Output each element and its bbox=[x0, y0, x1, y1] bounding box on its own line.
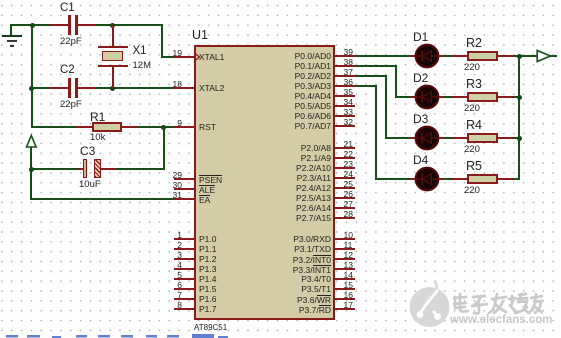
pin 14 (right) bbox=[0, 0, 561, 1]
pin 31 EA (left) bbox=[0, 0, 561, 1]
resistor R1 bbox=[92, 122, 122, 132]
resistor R3 bbox=[467, 92, 498, 102]
junction top rail / crystal top bbox=[110, 23, 115, 28]
wire R5 to bus bbox=[513, 178, 521, 180]
pin 15 (right) bbox=[0, 0, 561, 1]
pin 23 (right) bbox=[0, 0, 561, 1]
pin 8 P1.7 (left) bbox=[0, 0, 561, 1]
power terminal arrow bbox=[24, 134, 40, 150]
pin 34 (right) bbox=[0, 0, 561, 1]
wire power stem to EA pin bbox=[30, 198, 175, 200]
wire R4 lead right bbox=[498, 137, 514, 139]
wire crystal top stem bbox=[112, 25, 114, 47]
label AT89C51 bbox=[194, 323, 227, 332]
LED D2 bbox=[414, 84, 440, 110]
wire D2 lead right bbox=[439, 96, 445, 98]
IC U1 AT89C51 body bbox=[194, 45, 335, 320]
wire bus to arrow bbox=[519, 55, 557, 57]
value 10k bbox=[90, 133, 105, 144]
wire D1 lead right bbox=[439, 55, 445, 57]
value 10uF bbox=[79, 180, 101, 191]
wire into XTAL1 pin bbox=[162, 56, 175, 58]
wire ground to C1 left bbox=[10, 24, 51, 26]
LED D4 bbox=[414, 166, 440, 192]
pin 36 (right) bbox=[0, 0, 561, 1]
pin 17 (right) bbox=[0, 0, 561, 1]
wire C2 right to XTAL2 pin bbox=[95, 87, 176, 89]
label X1 bbox=[133, 45, 147, 58]
junction bus / R4 bbox=[517, 136, 522, 141]
label U1 bbox=[192, 29, 208, 43]
wire left rail to C2 left bbox=[31, 87, 51, 89]
pin 3 P1.2 (left) bbox=[0, 0, 561, 1]
wire D2 to R3 bbox=[444, 96, 453, 98]
LED D3 bbox=[414, 125, 440, 151]
label R1 bbox=[90, 111, 105, 124]
watermark logo circle bbox=[405, 278, 561, 338]
wire to D4 bbox=[375, 178, 413, 180]
pin 11 (right) bbox=[0, 0, 561, 1]
wire R1 lead right bbox=[122, 126, 140, 128]
junction C2 net / crystal bottom bbox=[110, 86, 115, 91]
wire R3 lead right bbox=[498, 96, 514, 98]
wire D3 lead right bbox=[439, 137, 445, 139]
wire C3 lead left bbox=[78, 168, 84, 170]
wire left rail C1-C2-R1 bbox=[31, 24, 33, 128]
value 22pF (C1) bbox=[60, 37, 82, 48]
junction bus / R3 bbox=[517, 95, 522, 100]
label D1 bbox=[413, 31, 428, 44]
pin 33 (right) bbox=[0, 0, 561, 1]
pin 6 P1.5 (left) bbox=[0, 0, 561, 1]
wire pin36 down bbox=[375, 85, 377, 179]
capacitor C2 bbox=[0, 0, 561, 1]
wire C1 lead right bbox=[77, 24, 96, 26]
ground bbox=[0, 0, 561, 1]
pin 13 (right) bbox=[0, 0, 561, 1]
wire pin36 right bbox=[355, 85, 377, 87]
value 12M bbox=[133, 61, 151, 72]
pin 37 (right) bbox=[0, 0, 561, 1]
pin 24 (right) bbox=[0, 0, 561, 1]
resistor R4 bbox=[467, 133, 498, 143]
wire R3 lead left bbox=[452, 96, 468, 98]
wire R2 lead right bbox=[498, 55, 514, 57]
wire C1 lead left bbox=[50, 24, 69, 26]
label C1 bbox=[60, 2, 75, 15]
pin 1 P1.0 (left) bbox=[0, 0, 561, 1]
wire crystal bottom stem bbox=[112, 66, 114, 88]
watermark www.elecfans.com bbox=[450, 314, 552, 327]
label C3 bbox=[80, 145, 95, 158]
wire R4 lead left bbox=[452, 137, 468, 139]
pin 5 P1.4 (left) bbox=[0, 0, 561, 1]
wire D3 to R4 bbox=[444, 137, 453, 139]
bottom caption fragments (cropped blue text) bbox=[0, 334, 240, 338]
label D4 bbox=[413, 154, 428, 167]
value 220 (R3) bbox=[464, 104, 480, 115]
wire D4 to R5 bbox=[444, 178, 453, 180]
wire D4 lead right bbox=[439, 178, 445, 180]
wire R1 right to RST pin bbox=[138, 126, 175, 128]
capacitor C3 bbox=[0, 0, 561, 1]
label D3 bbox=[413, 113, 428, 126]
clock input mark XTAL1 bbox=[195, 53, 201, 61]
pin 22 (right) bbox=[0, 0, 561, 1]
label R2 bbox=[466, 37, 482, 51]
output terminal arrow bbox=[536, 49, 553, 63]
pin 7 P1.6 (left) bbox=[0, 0, 561, 1]
pin 30 ALE (left) bbox=[0, 0, 561, 1]
wire C2 lead left bbox=[50, 87, 69, 89]
wire C3 right plate to branch bbox=[116, 168, 165, 170]
label R4 bbox=[466, 119, 482, 133]
wire output bus bbox=[518, 55, 520, 180]
wire D1 to R2 bbox=[444, 55, 453, 57]
pin 25 (right) bbox=[0, 0, 561, 1]
wire corner down to XTAL1 level bbox=[161, 24, 163, 58]
pin 9 RST (left) bbox=[0, 0, 561, 1]
pin 10 (right) bbox=[0, 0, 561, 1]
junction RST net / C3 branch bbox=[161, 125, 166, 130]
wire C2 lead right bbox=[77, 87, 96, 89]
label D2 bbox=[413, 72, 428, 85]
pin 12 (right) bbox=[0, 0, 561, 1]
resistor R2 bbox=[467, 51, 498, 61]
wire pin39 to D1 bbox=[355, 55, 413, 57]
wire power stem to C3 left wire bbox=[30, 168, 79, 170]
value 220 (R4) bbox=[464, 145, 480, 156]
watermark Chinese text 电子发烧友 bbox=[451, 292, 543, 316]
label R3 bbox=[466, 78, 482, 92]
wire pin37 down bbox=[385, 75, 387, 138]
pin 2 P1.1 (left) bbox=[0, 0, 561, 1]
wire pin38 right bbox=[355, 65, 397, 67]
junction left rail / C2 bbox=[29, 86, 34, 91]
capacitor C1 bbox=[0, 0, 561, 1]
pin 16 (right) bbox=[0, 0, 561, 1]
wire R2 lead left bbox=[452, 55, 468, 57]
wire D1 lead left bbox=[410, 55, 416, 57]
resistor R5 bbox=[467, 174, 498, 184]
pin 35 (right) bbox=[0, 0, 561, 1]
value 22pF (C2) bbox=[60, 100, 82, 111]
pin 18 XTAL2 (left) bbox=[0, 0, 561, 1]
pin 19 XTAL1 (left) bbox=[0, 0, 561, 1]
wire to D2 bbox=[395, 96, 413, 98]
pin 28 (right) bbox=[0, 0, 561, 1]
junction bus / R2 / arrow bbox=[517, 54, 522, 59]
wire R5 lead left bbox=[452, 178, 468, 180]
wire to D3 bbox=[385, 137, 413, 139]
value 220 (R5) bbox=[464, 186, 480, 197]
pin 26 (right) bbox=[0, 0, 561, 1]
pin 38 (right) bbox=[0, 0, 561, 1]
wire pin37 right bbox=[355, 75, 387, 77]
value 220 (R2) bbox=[464, 63, 480, 74]
wire RST branch down to C3 bbox=[163, 127, 165, 169]
wire D4 lead left bbox=[410, 178, 416, 180]
pin 27 (right) bbox=[0, 0, 561, 1]
wire R3 to bus bbox=[513, 96, 521, 98]
label R5 bbox=[466, 160, 482, 174]
junction power stem / C3 left bbox=[29, 167, 34, 172]
pin 32 (right) bbox=[0, 0, 561, 1]
label C2 bbox=[60, 64, 75, 77]
wire R5 lead right bbox=[498, 178, 514, 180]
wire R4 to bus bbox=[513, 137, 521, 139]
pin 39 (right) bbox=[0, 0, 561, 1]
junction top rail / left rail bbox=[30, 23, 35, 28]
wire R2 to bus bbox=[513, 55, 521, 57]
pin 4 P1.3 (left) bbox=[0, 0, 561, 1]
pin 21 (right) bbox=[0, 0, 561, 1]
LED D1 bbox=[414, 43, 440, 69]
wire pin38 down bbox=[395, 65, 397, 97]
wire R1 lead left bbox=[75, 126, 93, 128]
wire D2 lead left bbox=[410, 96, 416, 98]
wire C3 lead right bbox=[101, 168, 118, 170]
wire D3 lead left bbox=[410, 137, 416, 139]
crystal X1 bbox=[0, 0, 561, 1]
pin 29 PSEN (left) bbox=[0, 0, 561, 1]
wire power stem bbox=[30, 147, 32, 200]
wire left rail to R1 left bbox=[31, 126, 76, 128]
wire C1 right to corner bbox=[95, 24, 164, 26]
